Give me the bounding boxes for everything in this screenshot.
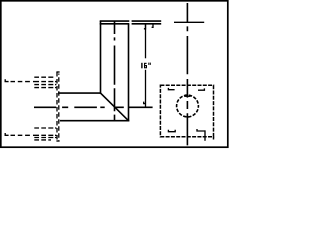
dimension hook tick 1 [144,24,146,29]
dimension line 16in upper part [145,24,147,58]
vertical centerline of pipe [114,21,116,120]
hidden pipe top line with end tick [5,79,8,81]
border frame [1,1,228,147]
dimension line 16in lower part [145,70,147,108]
circle top tick [184,95,190,97]
hidden flange hub lines bottom [34,127,56,129]
dimension text 16" [141,63,151,69]
elbow top cap line 1 [100,20,130,22]
hidden flange plate bottom edge [56,140,59,142]
dimension extension double line 2 [132,23,162,25]
bolt mark bottom-right [197,129,205,131]
bolt mark top-left [168,88,174,90]
elbow vertical pipe right edge [128,24,130,122]
bolt mark top-right [198,88,204,90]
hidden flange hub lines top [34,76,53,78]
elbow vertical pipe left edge [100,21,102,94]
elbow miter diagonal [101,93,129,121]
elbow horizontal pipe bottom edge [60,120,129,122]
hidden flange plate right edge [58,74,60,142]
hidden bolt circle [177,95,199,117]
elbow top cap line 2 [100,23,130,25]
bolt mark bottom-left [168,130,175,132]
hidden flange plate left edge [56,72,58,141]
hidden flange plate top edge [56,71,59,73]
elbow horizontal pipe top edge [58,92,100,94]
horizontal centerline of pipe [34,106,153,108]
dimension bottom tick [144,102,146,104]
base plate right edge extension [213,137,215,140]
base plate hidden square [160,85,213,136]
right view vertical centerline [186,3,188,145]
dimension extension double line 1 [132,20,162,22]
bolt mark bottom-right vertical [204,130,206,140]
right view top tick [174,21,204,23]
dimension hook tick 2 [152,24,153,28]
hidden pipe bottom line with end tick [5,133,8,135]
